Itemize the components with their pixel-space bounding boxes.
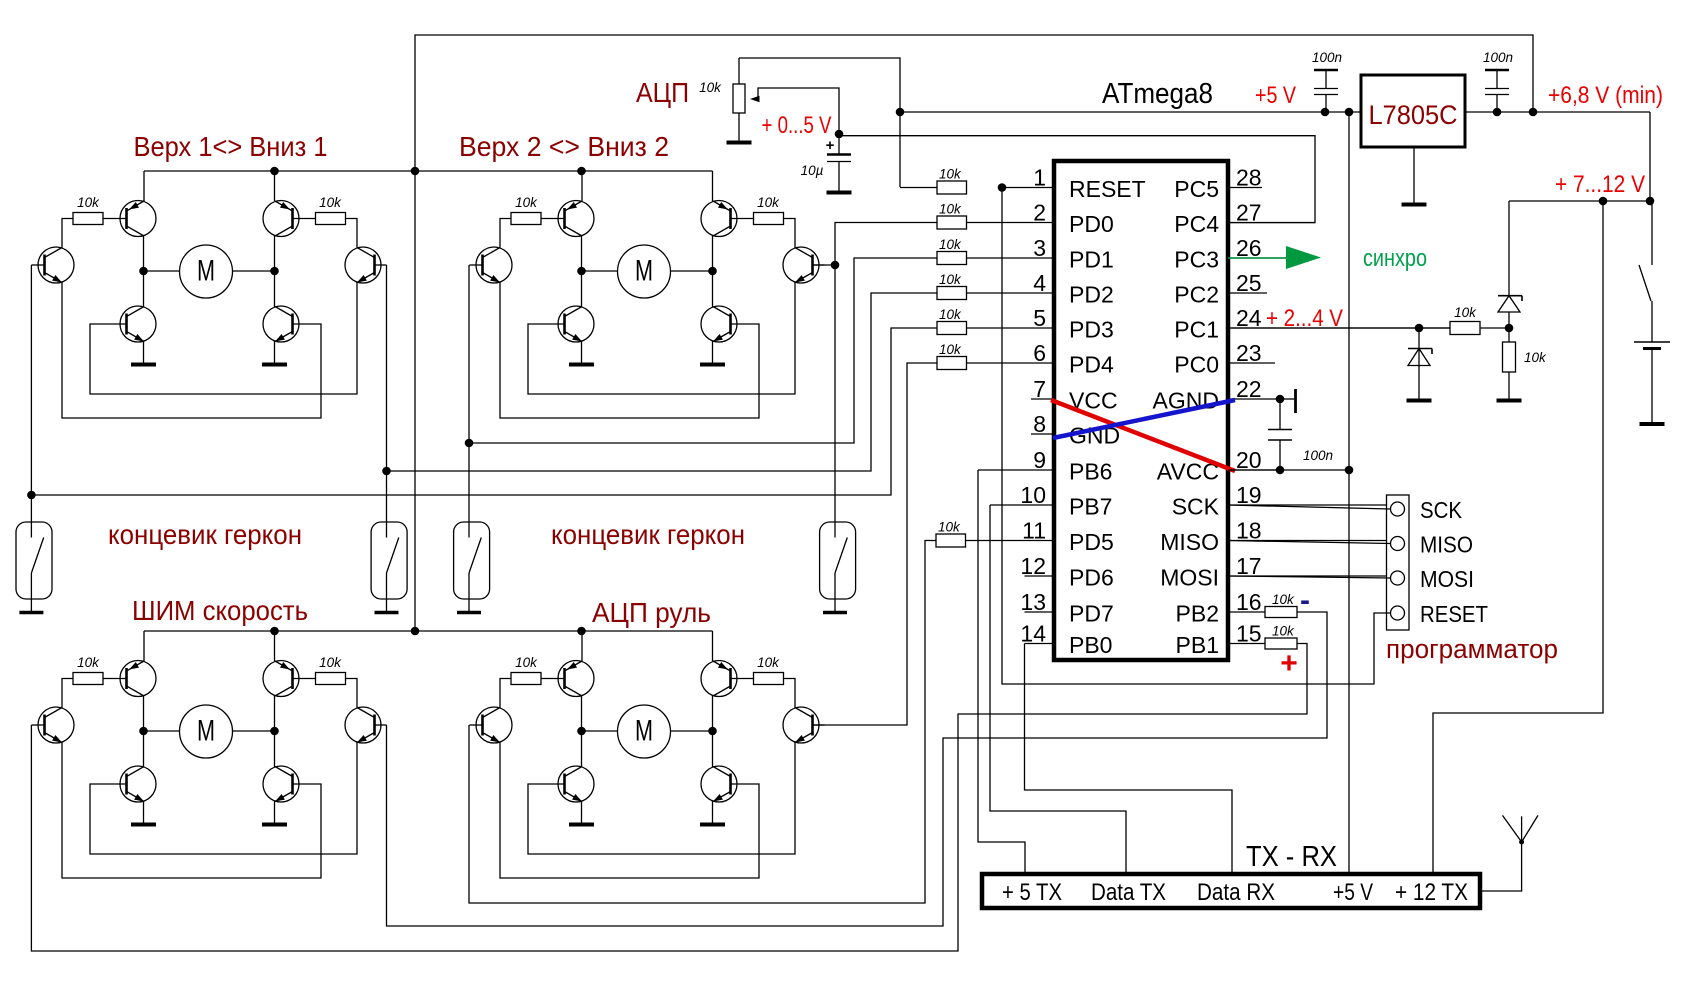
pin 8 stub — [1031, 411, 1054, 437]
resistor R21 10k (left base) — [511, 195, 565, 225]
pin 10 stub — [990, 482, 1054, 508]
title H-bridge 3 — [132, 595, 308, 626]
pin row 4 labels — [1069, 282, 1219, 308]
svg-text:M: M — [197, 715, 215, 748]
label limit reed switches left — [108, 519, 302, 550]
wire PD4 to HB4 right driver base — [812, 363, 937, 725]
resistor R22 10k (right base) — [731, 195, 784, 225]
motor M1 — [180, 245, 233, 298]
wire H-bridge 1-2 top rail — [144, 167, 713, 176]
reed switch reed2 — [371, 522, 407, 611]
wire AVCC to +5V vertical — [1228, 466, 1353, 475]
transistor Q11 (left high-side PNP of H-bridge 1) — [120, 171, 156, 271]
transistor Q34 (right low-side NPN of H-bridge 3) — [263, 731, 299, 823]
motor M4 — [618, 705, 671, 758]
ground (reed3) — [457, 611, 481, 615]
pin row 6 labels — [1069, 352, 1219, 378]
wire +7...12V rail — [1509, 112, 1654, 205]
svg-text:M: M — [635, 715, 653, 748]
svg-text:MOSI: MOSI — [1420, 566, 1474, 592]
transistor Q25 (left driver NPN of H-bridge 2) — [469, 247, 512, 283]
wire VCC to AVCC (red) — [1051, 400, 1235, 471]
motor M3 — [180, 705, 233, 758]
IC U1 ATmega8 body — [1054, 161, 1228, 660]
title H-bridge 2 — [459, 131, 669, 162]
label + 12 TX — [1395, 879, 1468, 906]
svg-text:10k: 10k — [515, 655, 538, 670]
wire PD5 to HB4 left driver base — [469, 541, 936, 904]
capacitor C3 10u electrolytic — [826, 134, 851, 191]
pin row 12 labels — [1069, 565, 1219, 591]
wire motor left node — [577, 727, 617, 736]
wire feedback right-NPN base to left driver emitter — [62, 743, 321, 879]
label + 0...5 V — [762, 112, 832, 139]
svg-text:10k: 10k — [1454, 305, 1477, 320]
wire PB1 to H-bridge3 left driver — [31, 644, 1307, 952]
transistor Q15 (left driver NPN of H-bridge 1) — [31, 247, 74, 283]
pin row 10 labels — [1069, 494, 1220, 520]
potentiometer wiper arrow — [750, 88, 839, 134]
ground (potentiometer) — [727, 141, 752, 145]
ground (left low-side emitter) — [131, 363, 156, 367]
svg-text:Data RX: Data RX — [1197, 879, 1275, 906]
connector pin MISO — [1391, 532, 1474, 558]
ground (left low-side emitter) — [569, 363, 594, 367]
wire Q15 collector to R11 — [62, 219, 73, 248]
svg-text:TX - RX: TX - RX — [1246, 841, 1337, 873]
svg-text:16: 16 — [1236, 589, 1262, 615]
label + 7...12 V — [1555, 171, 1645, 198]
transistor Q44 (right low-side NPN of H-bridge 4) — [701, 731, 737, 823]
resistor R41 10k (left base) — [511, 655, 565, 685]
svg-text:RESET: RESET — [1420, 601, 1488, 627]
svg-text:10k: 10k — [939, 237, 962, 252]
wire PB2 to H-bridge3 right driver — [387, 612, 1328, 926]
svg-text:+5 V: +5 V — [1333, 879, 1373, 906]
ground (reed4) — [823, 611, 847, 615]
wire motor left node — [139, 267, 179, 276]
label ATmega8 — [1102, 78, 1213, 110]
svg-text:PB0: PB0 — [1069, 632, 1112, 658]
title H-bridge 1 — [134, 131, 328, 162]
ground (R8) — [1497, 399, 1522, 403]
svg-text:PD4: PD4 — [1069, 352, 1114, 378]
pin 25 stub — [1228, 270, 1267, 296]
wire top supply rail — [415, 35, 1533, 171]
svg-text:PD0: PD0 — [1069, 211, 1114, 237]
svg-text:PB2: PB2 — [1176, 601, 1219, 627]
wire PB7 to DataTX — [990, 505, 1126, 874]
transistor Q21 (left high-side PNP of H-bridge 2) — [558, 171, 594, 271]
transistor Q42 (right high-side PNP of H-bridge 4) — [701, 631, 737, 731]
pin row 9 labels — [1069, 459, 1219, 485]
capacitor C2 100n — [1485, 70, 1509, 112]
label +5 V — [1255, 82, 1296, 109]
wire feedback left-NPN base to right driver emitter — [528, 283, 795, 395]
svg-text:13: 13 — [1020, 589, 1046, 615]
transistor Q31 (left high-side PNP of H-bridge 3) — [120, 631, 156, 731]
ground (left low-side emitter) — [131, 823, 156, 827]
motor M2 — [618, 245, 671, 298]
label синхро — [1363, 245, 1427, 272]
resistor R32 10k (right base) — [293, 655, 346, 685]
label Data RX — [1197, 879, 1275, 906]
svg-text:24: 24 — [1236, 305, 1262, 331]
svg-text:10k: 10k — [77, 655, 100, 670]
svg-text:Data TX: Data TX — [1091, 879, 1166, 906]
svg-text:+: + — [1280, 647, 1298, 680]
svg-text:Верх 1<> Вниз 1: Верх 1<> Вниз 1 — [134, 131, 328, 162]
reed switch reed1 — [16, 522, 52, 611]
svg-text:2: 2 — [1033, 200, 1046, 226]
wire SCK — [1228, 505, 1391, 509]
pin 24 stub — [1228, 305, 1450, 331]
svg-text:100n: 100n — [1303, 448, 1333, 463]
svg-text:10k: 10k — [1272, 624, 1295, 639]
svg-text:11: 11 — [1022, 518, 1046, 544]
svg-text:8: 8 — [1033, 411, 1046, 437]
ground (right low-side emitter) — [262, 823, 287, 827]
svg-text:SCK: SCK — [1172, 494, 1220, 520]
svg-text:концевик геркон: концевик геркон — [551, 519, 745, 550]
ground (C3) — [827, 191, 852, 195]
wire PD2 to HB1 right driver base and reed2 — [382, 265, 937, 522]
svg-text:27: 27 — [1236, 200, 1262, 226]
pin row 13 labels — [1069, 601, 1219, 627]
label + 2...4 V — [1266, 305, 1343, 332]
svg-text:1: 1 — [1033, 165, 1046, 191]
wire supply drop to lower rail — [414, 171, 416, 631]
wire feedback right-NPN base to left driver emitter — [500, 283, 759, 419]
svg-text:10k: 10k — [77, 195, 100, 210]
ground (battery) — [1640, 422, 1665, 426]
pin row 7 labels — [1069, 388, 1219, 414]
wire regulator ground — [1413, 147, 1415, 203]
svg-text:PC3: PC3 — [1174, 247, 1219, 273]
wire motor right node — [671, 727, 717, 736]
transistor Q16 (right driver NPN of H-bridge 1) — [345, 247, 387, 283]
svg-text:PC4: PC4 — [1174, 211, 1219, 237]
svg-text:PC5: PC5 — [1174, 176, 1219, 202]
resistor R31 10k (left base) — [73, 655, 127, 685]
wire motor right node — [233, 267, 279, 276]
svg-text:RESET: RESET — [1069, 176, 1146, 202]
pin 17 stub — [1228, 553, 1390, 579]
svg-text:PD2: PD2 — [1069, 282, 1114, 308]
resistor R_PD0 10k — [937, 202, 967, 230]
node AGND junction — [1276, 395, 1285, 404]
wire PD3 to HB1 left driver base and reed1 — [27, 265, 937, 522]
reed switch reed3 — [454, 522, 490, 611]
svg-text:MISO: MISO — [1420, 532, 1473, 558]
svg-text:PD7: PD7 — [1069, 601, 1114, 627]
transistor Q45 (left driver NPN of H-bridge 4) — [469, 707, 512, 743]
svg-text:MISO: MISO — [1160, 529, 1219, 555]
svg-text:АЦП: АЦП — [636, 77, 689, 108]
svg-text:22: 22 — [1236, 376, 1262, 402]
wire PD0 to HB2 right driver base and reed4 — [812, 223, 937, 523]
pin 28 stub — [1228, 165, 1262, 191]
antenna — [1480, 815, 1538, 891]
svg-text:концевик геркон: концевик геркон — [108, 519, 302, 550]
wire Q46 collector to R42 — [784, 679, 796, 708]
label + 5 TX — [1002, 879, 1062, 906]
label plus — [1280, 647, 1298, 680]
label limit reed switches right — [551, 519, 745, 550]
resistor R_PB1 10k — [1265, 624, 1297, 650]
connector pin RESET — [1391, 601, 1489, 627]
svg-text:15: 15 — [1236, 621, 1262, 647]
svg-text:10k: 10k — [515, 195, 538, 210]
wire Q26 collector to R22 — [784, 219, 796, 248]
label minus — [1300, 584, 1310, 617]
transistor Q22 (right high-side PNP of H-bridge 2) — [701, 171, 737, 271]
label Data TX — [1091, 879, 1166, 906]
transistor Q32 (right high-side PNP of H-bridge 3) — [263, 631, 299, 731]
svg-text:PB6: PB6 — [1069, 459, 1112, 485]
resistor R_PD1 10k — [937, 237, 967, 265]
module TX-RX box — [982, 874, 1480, 908]
wire feedback right-NPN base to left driver emitter — [62, 283, 321, 419]
svg-text:20: 20 — [1236, 447, 1262, 473]
wire feedback left-NPN base to right driver emitter — [90, 283, 357, 395]
resistor R_RST 10k — [937, 167, 967, 195]
pin 7 stub — [1031, 376, 1054, 402]
svg-text:25: 25 — [1236, 270, 1262, 296]
pin 23 stub — [1228, 340, 1275, 366]
pin 3 stub — [966, 235, 1054, 261]
svg-text:6: 6 — [1033, 340, 1046, 366]
wire H-bridge 3-4 top rail — [144, 627, 713, 636]
resistor R_PB2 10k — [1265, 592, 1297, 618]
potentiometer R-pot — [733, 58, 745, 141]
title H-bridge 4 — [592, 597, 711, 628]
transistor Q36 (right driver NPN of H-bridge 3) — [345, 707, 387, 743]
label программатор — [1386, 634, 1558, 664]
wire regulator output to +6.8V node — [1465, 108, 1650, 117]
svg-text:10: 10 — [1020, 482, 1046, 508]
pin 16 stub — [1228, 589, 1266, 615]
ground (D1) — [1407, 399, 1432, 403]
node ADC wiper junction — [835, 130, 844, 139]
reed switch reed4 — [820, 522, 856, 611]
transistor Q46 (right driver NPN of H-bridge 4) — [783, 707, 825, 743]
svg-text:синхро: синхро — [1363, 245, 1427, 272]
resistor R42 10k (right base) — [731, 655, 784, 685]
svg-text:PB1: PB1 — [1176, 632, 1219, 658]
battery B1 — [1634, 342, 1670, 422]
pin 14 stub — [1020, 621, 1054, 647]
connector pin SCK — [1391, 497, 1463, 523]
potentiometer 10k value — [699, 80, 722, 95]
pin 15 stub — [1228, 621, 1266, 647]
svg-text:3: 3 — [1033, 235, 1046, 261]
svg-text:программатор: программатор — [1386, 634, 1558, 664]
pin row 14 labels — [1069, 632, 1219, 658]
ground (right low-side emitter) — [262, 363, 287, 367]
label АЦП — [636, 77, 689, 108]
connector J1 programmer — [1387, 495, 1410, 630]
svg-text:10k: 10k — [1524, 350, 1547, 365]
ground (AGND bar) — [1280, 389, 1296, 413]
pin row 8 labels — [1069, 423, 1120, 449]
wire +5V rail — [896, 108, 1361, 117]
svg-text:10k: 10k — [939, 202, 962, 217]
svg-text:+ 12 TX: + 12 TX — [1395, 879, 1468, 906]
label 100n C1 — [1312, 50, 1342, 65]
ground (right low-side emitter) — [700, 363, 725, 367]
svg-text:Верх 2 <> Вниз 2: Верх 2 <> Вниз 2 — [459, 131, 669, 162]
resistor R12 10k (right base) — [293, 195, 346, 225]
svg-text:10k: 10k — [757, 655, 780, 670]
wire PB0 to DataRX — [1025, 644, 1233, 875]
transistor Q33 (left low-side NPN of H-bridge 3) — [120, 731, 156, 823]
svg-text:+6,8 V (min): +6,8 V (min) — [1548, 82, 1663, 109]
pin 22 stub — [1228, 376, 1280, 402]
wire feedback left-NPN base to right driver emitter — [90, 743, 357, 855]
wire motor left node — [139, 727, 179, 736]
ground (right low-side emitter) — [700, 823, 725, 827]
wire Q25 collector to R21 — [500, 219, 511, 248]
wire ADC to PC4 pin 27 — [839, 136, 1315, 223]
svg-text:ATmega8: ATmega8 — [1102, 78, 1213, 110]
pin row 3 labels — [1069, 247, 1219, 273]
transistor Q24 (right low-side NPN of H-bridge 2) — [701, 271, 737, 363]
svg-text:10k: 10k — [319, 195, 342, 210]
svg-text:10k: 10k — [757, 195, 780, 210]
wire +5V vertical to TX-RX — [1348, 112, 1350, 874]
label +5 V (TX) — [1333, 879, 1373, 906]
pin 18 stub — [1228, 518, 1390, 544]
pin 2 stub — [966, 200, 1054, 226]
pin row 1 labels — [1069, 176, 1219, 202]
svg-text:28: 28 — [1236, 165, 1262, 191]
pin 11 stub — [966, 518, 1054, 544]
svg-text:L7805C: L7805C — [1369, 100, 1458, 130]
label 100n C2 — [1483, 50, 1513, 65]
svg-text:PD6: PD6 — [1069, 565, 1114, 591]
svg-text:+ 5 TX: + 5 TX — [1002, 879, 1062, 906]
transistor Q35 (left driver NPN of H-bridge 3) — [31, 707, 74, 743]
svg-text:SCK: SCK — [1420, 497, 1463, 523]
svg-text:PD1: PD1 — [1069, 247, 1114, 273]
wire motor right node — [233, 727, 279, 736]
transistor Q12 (right high-side PNP of H-bridge 1) — [263, 171, 299, 271]
ground (regulator) — [1402, 203, 1427, 207]
pin 9 stub — [978, 447, 1054, 473]
label TX - RX — [1246, 841, 1337, 873]
svg-text:PD5: PD5 — [1069, 529, 1114, 555]
svg-text:17: 17 — [1236, 553, 1262, 579]
ground (left low-side emitter) — [569, 823, 594, 827]
pin 1 stub — [1002, 165, 1054, 191]
pin 13 stub — [1020, 589, 1054, 615]
wire PB6 to +5TX — [978, 470, 1025, 874]
transistor Q43 (left low-side NPN of H-bridge 4) — [558, 731, 594, 823]
resistor R11 10k (left base) — [73, 195, 127, 225]
pin 5 stub — [966, 305, 1054, 331]
svg-text:+ 7...12 V: + 7...12 V — [1555, 171, 1645, 198]
wire MOSI — [1228, 576, 1391, 578]
pin row 2 labels — [1069, 211, 1219, 237]
pin row 11 labels — [1069, 529, 1219, 555]
wire motor left node — [577, 267, 617, 276]
connector pin MOSI — [1391, 566, 1475, 592]
wire MISO — [1228, 541, 1391, 544]
wire feedback left-NPN base to right driver emitter — [528, 743, 795, 855]
svg-text:5: 5 — [1033, 305, 1046, 331]
resistor R_PD2 10k — [937, 272, 967, 300]
wire RESET to programmer — [1002, 188, 1391, 685]
pin 4 stub — [966, 270, 1054, 296]
svg-text:10k: 10k — [939, 272, 962, 287]
label 10u — [801, 163, 824, 178]
resistor R_PD3 10k — [937, 307, 967, 335]
svg-text:12: 12 — [1020, 553, 1046, 579]
svg-text:4: 4 — [1033, 270, 1046, 296]
wire PC3 sync output (green) — [1228, 246, 1321, 269]
switch S1 — [1639, 201, 1652, 342]
svg-text:PC0: PC0 — [1174, 352, 1219, 378]
svg-text:100n: 100n — [1312, 50, 1342, 65]
svg-text:100n: 100n — [1483, 50, 1513, 65]
transistor Q23 (left low-side NPN of H-bridge 2) — [558, 271, 594, 363]
pin 20 stub — [1228, 447, 1282, 473]
wire GND to AGND (blue) — [1053, 400, 1235, 438]
svg-text:PD3: PD3 — [1069, 317, 1114, 343]
diode D1 zener — [1408, 328, 1432, 399]
svg-text:23: 23 — [1236, 340, 1262, 366]
label +6,8 V (min) — [1548, 82, 1663, 109]
wire +12V feed down right side — [1433, 201, 1603, 874]
capacitor C4 100n (AVCC) — [1268, 399, 1333, 470]
svg-text:26: 26 — [1236, 235, 1262, 261]
voltage regulator U2 L7805C — [1361, 75, 1465, 147]
wire motor right node — [671, 267, 717, 276]
svg-text:7: 7 — [1033, 376, 1046, 402]
svg-text:PC1: PC1 — [1174, 317, 1219, 343]
svg-text:10k: 10k — [1272, 592, 1295, 607]
svg-text:+: + — [826, 137, 835, 154]
resistor R_PD4 10k — [937, 342, 967, 370]
svg-text:+ 0...5 V: + 0...5 V — [762, 112, 832, 139]
node pin1 junction — [998, 183, 1007, 192]
wire Q45 collector to R41 — [500, 679, 511, 708]
resistor R8 10k (to ground) — [1503, 328, 1548, 399]
wire Q36 collector to R32 — [346, 679, 358, 708]
pin 27 stub — [1228, 200, 1315, 226]
pin 19 stub — [1228, 482, 1390, 508]
capacitor C1 100n — [1314, 70, 1338, 112]
svg-text:PC2: PC2 — [1174, 282, 1219, 308]
svg-text:10k: 10k — [939, 342, 962, 357]
resistor R7 10k (PC1 series) — [1450, 305, 1480, 335]
transistor Q26 (right driver NPN of H-bridge 2) — [783, 247, 825, 283]
svg-text:PB7: PB7 — [1069, 494, 1112, 520]
ground (reed1) — [19, 611, 43, 615]
wire Q35 collector to R31 — [62, 679, 73, 708]
svg-text:ШИМ скорость: ШИМ скорость — [132, 595, 308, 626]
svg-text:10µ: 10µ — [801, 163, 824, 178]
pin row 5 labels — [1069, 317, 1219, 343]
svg-text:10k: 10k — [699, 80, 722, 95]
transistor Q41 (left high-side PNP of H-bridge 4) — [558, 631, 594, 731]
resistor R_PD5 10k — [936, 520, 966, 548]
pin 6 stub — [966, 340, 1054, 366]
wire pot top to +5V rail — [739, 58, 900, 187]
svg-text:10k: 10k — [938, 520, 961, 535]
wire PD1 to HB2 left driver base and reed3 — [465, 258, 937, 522]
